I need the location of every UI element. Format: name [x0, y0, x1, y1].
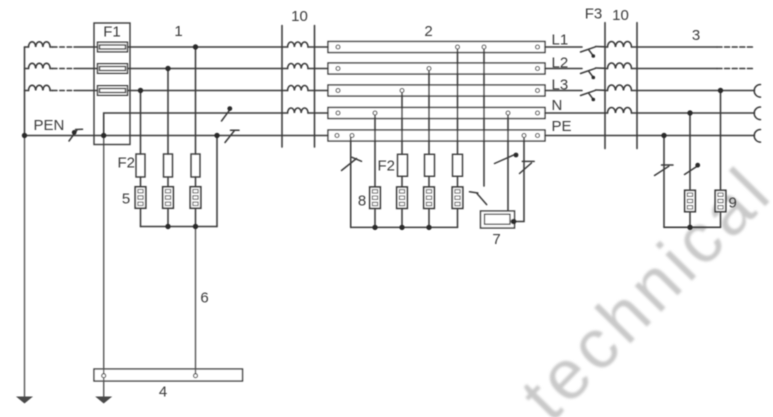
fuse F2 left a	[136, 154, 145, 177]
winding 10 L2	[288, 64, 308, 69]
junction L3 right dropper	[718, 88, 723, 93]
junction mid rail b	[399, 225, 404, 230]
svg-text:1: 1	[174, 23, 182, 40]
winding 10 L3	[288, 86, 308, 91]
svg-text:PE: PE	[552, 118, 572, 135]
link symbol on N dropper x508 (slash with dot)	[495, 153, 519, 164]
switch blade to device 7 (from L1 dropper)	[470, 192, 487, 205]
junction node L3 dropper	[138, 88, 143, 93]
wire PEN / PE to busbar	[25, 135, 329, 137]
svg-text:6: 6	[200, 290, 208, 307]
node star point: left vertical conductor	[24, 47, 26, 136]
wire L2 divider to coil	[605, 68, 608, 70]
terminal circles busbar L2	[336, 67, 340, 71]
wire dropper N bar to device 7	[507, 113, 509, 211]
fuse switch F3 on L1	[581, 47, 596, 58]
wire arrester 9b to rail	[720, 213, 722, 227]
wire F2 to arrester 5 legs	[140, 177, 142, 187]
link symbol on PE dropper x664 (slash with bar)	[655, 165, 674, 176]
wire PEN earthing conductor to bar 4	[103, 136, 105, 397]
link symbol on PE line (slash with bar)	[225, 130, 239, 142]
wire L2 into fuse F1	[74, 68, 98, 70]
junction node star point / PEN	[22, 133, 27, 138]
junction mid rail a	[372, 225, 377, 230]
svg-text:F3: F3	[585, 6, 603, 23]
svg-text:F2: F2	[378, 158, 396, 175]
junction device 7 right terminal	[511, 219, 517, 225]
wire L3 F3 to divider	[596, 89, 606, 91]
link symbol on PE dropper x524 (slash with bar)	[520, 161, 535, 173]
fuse F1 phase L1	[98, 42, 128, 52]
wire L3 dashed continuation	[50, 90, 52, 92]
wire L1 coil to busbar	[308, 46, 328, 48]
junction node PEN split	[101, 133, 106, 138]
surge arrester 5c	[190, 187, 201, 208]
wire L3 divider to coil	[605, 90, 608, 92]
winding 10b L2	[608, 63, 632, 68]
link symbol on N line (slash with dot)	[222, 106, 233, 121]
spark gap device 7	[481, 211, 515, 228]
winding L1 (transformer coil)	[29, 42, 51, 47]
junction N right dropper	[687, 110, 692, 115]
wire dropper L1 bar to fuse F2b	[457, 47, 459, 154]
earth electrode arrow left	[16, 397, 33, 404]
wire arrester 5 to collector rail	[140, 209, 142, 227]
fuse F1 phase L3	[98, 86, 128, 96]
wire rail riser to PE node	[216, 136, 218, 227]
wire L1 outgoing 3	[632, 46, 718, 48]
link symbol on PEN line (arrow mark)	[69, 129, 83, 141]
svg-text:9: 9	[729, 195, 737, 212]
wire L3 busbar to F3	[545, 90, 582, 92]
svg-text:7: 7	[492, 231, 500, 248]
winding 10b L3	[608, 85, 632, 91]
winding 10b L1	[608, 42, 632, 47]
busbar 2 L3	[328, 85, 545, 96]
wire L2 F3 to divider	[596, 67, 606, 69]
fuse switch F3 on L2	[581, 68, 596, 79]
svg-text:L1: L1	[552, 32, 569, 49]
wire L2 left stub	[25, 68, 29, 70]
wire PE bar link dropper to mid rail	[350, 136, 352, 228]
wire L1 busbar to F3	[545, 46, 582, 48]
wire L1 dashed continuation	[50, 46, 52, 48]
busbar 2 N	[328, 108, 545, 119]
wire L2 busbar to F3	[545, 68, 582, 70]
svg-text:3: 3	[692, 27, 700, 44]
wire L3 coil to busbar	[308, 90, 328, 92]
fuse F2 left b	[164, 154, 173, 177]
wire L1 from F1 to coil 10	[128, 46, 288, 48]
wire dropper L3 right to arrester 9b	[720, 91, 722, 190]
section divider 10 right pair	[604, 23, 606, 149]
svg-text:10: 10	[612, 7, 629, 24]
section divider 10 left pair	[281, 26, 283, 148]
junction left rail b	[193, 224, 198, 229]
winding 10 N	[288, 108, 308, 113]
winding L2 (transformer coil)	[29, 63, 51, 68]
wire N branch from PEN node	[104, 113, 288, 136]
wire N outgoing 3	[632, 112, 755, 114]
wire L3 left stub	[25, 90, 29, 92]
junction node PE to left rail	[214, 133, 219, 138]
wire continuation arc PE	[754, 130, 760, 143]
wire L1 into fuse F1	[74, 46, 98, 48]
earth electrode arrow under bar 4	[95, 397, 112, 404]
svg-text:8: 8	[358, 193, 366, 210]
watermark "technical"	[506, 151, 773, 417]
fuse box F1	[94, 23, 130, 145]
link symbol on PE bar dropper x352	[342, 157, 362, 170]
busbar 2 L2	[328, 63, 545, 74]
wire L2 coil to busbar	[308, 68, 328, 70]
junction right rail	[687, 225, 692, 230]
wire right collector rail	[664, 226, 721, 228]
surge arrester 8c	[424, 187, 435, 208]
fuse switch F3 on L3	[581, 90, 596, 101]
wire arrester 9a to rail	[689, 213, 691, 227]
wire dropper L1 bar to switch of 7	[483, 47, 485, 186]
svg-text:PEN: PEN	[34, 117, 65, 134]
terminal circles busbar PE	[335, 134, 339, 138]
wire dropper PE right to rail	[663, 136, 665, 228]
svg-text:4: 4	[159, 384, 167, 401]
wire PE outgoing right	[545, 135, 755, 137]
junction node L2 dropper	[165, 66, 170, 71]
winding 10b N	[608, 108, 632, 113]
winding 10 L1	[288, 42, 308, 47]
wire dropper N bar to arrester 8a	[374, 113, 376, 187]
svg-text:2: 2	[424, 23, 432, 40]
wire dropper L2 bar to fuse F2b	[428, 69, 430, 155]
fuse F2 mid b	[425, 154, 435, 176]
junction mid rail c	[426, 225, 431, 230]
junction left rail a	[165, 224, 170, 229]
surge arrester 5a	[135, 187, 146, 208]
wire dropper from L2 node to F2	[167, 69, 169, 155]
winding L3 (transformer coil)	[29, 85, 51, 90]
link symbol on N dropper x690 (slash with dot)	[685, 163, 701, 175]
wire L3 into fuse F1	[74, 90, 98, 92]
surge arrester 9b	[715, 190, 726, 211]
svg-text:5: 5	[122, 191, 130, 208]
wire L3 outgoing 3	[632, 90, 755, 92]
terminal circles busbar L1	[336, 45, 340, 49]
terminal circles busbar 4	[102, 374, 106, 378]
wire dropper from L1 node to F2	[195, 47, 197, 154]
surge arrester 5b	[163, 187, 174, 208]
wire N coil to busbar	[308, 112, 328, 114]
fuse F1 phase L2	[98, 64, 128, 74]
svg-text:L3: L3	[552, 77, 569, 94]
wire L1 left stub	[25, 46, 29, 48]
surge arrester 8a	[370, 187, 381, 208]
busbar 4 earth bar	[94, 369, 243, 381]
wire mid collector rail	[351, 226, 458, 228]
svg-text:L2: L2	[552, 55, 569, 72]
terminal circles busbar L3	[336, 89, 340, 93]
wire L2 dashed continuation	[50, 68, 52, 70]
junction PE right dropper	[661, 133, 666, 138]
wire 6 earthing conductor	[195, 227, 197, 376]
svg-text:N: N	[552, 97, 563, 114]
fuse F2 mid c	[453, 154, 463, 176]
wire collector rail left group	[141, 226, 218, 228]
wire dropper from L3 node to F2	[140, 91, 142, 155]
wire L2 outgoing 3	[632, 68, 718, 70]
svg-text:10: 10	[291, 8, 308, 25]
surge arrester 8b	[397, 187, 408, 208]
wire L1 F3 to divider	[596, 46, 606, 48]
wire dropper L3 bar to fuse F2b	[401, 91, 403, 155]
surge arrester 9a	[685, 190, 696, 211]
wire fuses F2b to arresters 8	[401, 176, 403, 187]
wire L3 from F1 to coil 10	[128, 90, 288, 92]
fuse F2 mid a	[398, 154, 408, 176]
svg-text:F2: F2	[118, 155, 136, 172]
wire dropper N right to arrester 9a	[689, 113, 691, 189]
junction node L1 dropper	[193, 44, 198, 49]
wire continuation arc N	[754, 107, 760, 120]
wire arresters 8 to mid rail	[374, 208, 376, 227]
busbar 2 PE	[328, 130, 545, 141]
wire dropper PE bar to device 7	[514, 136, 524, 222]
busbar 2 L1	[328, 42, 545, 53]
svg-text:F1: F1	[103, 24, 121, 41]
surge arrester 8d	[452, 187, 463, 208]
terminal circles busbar N	[336, 111, 340, 115]
wire N busbar to coil	[545, 112, 608, 114]
wire L1 divider to coil	[605, 46, 608, 48]
wire continuation arc L3	[754, 85, 760, 98]
fuse F2 left c	[191, 154, 200, 177]
wire L2 from F1 to coil 10	[128, 68, 288, 70]
